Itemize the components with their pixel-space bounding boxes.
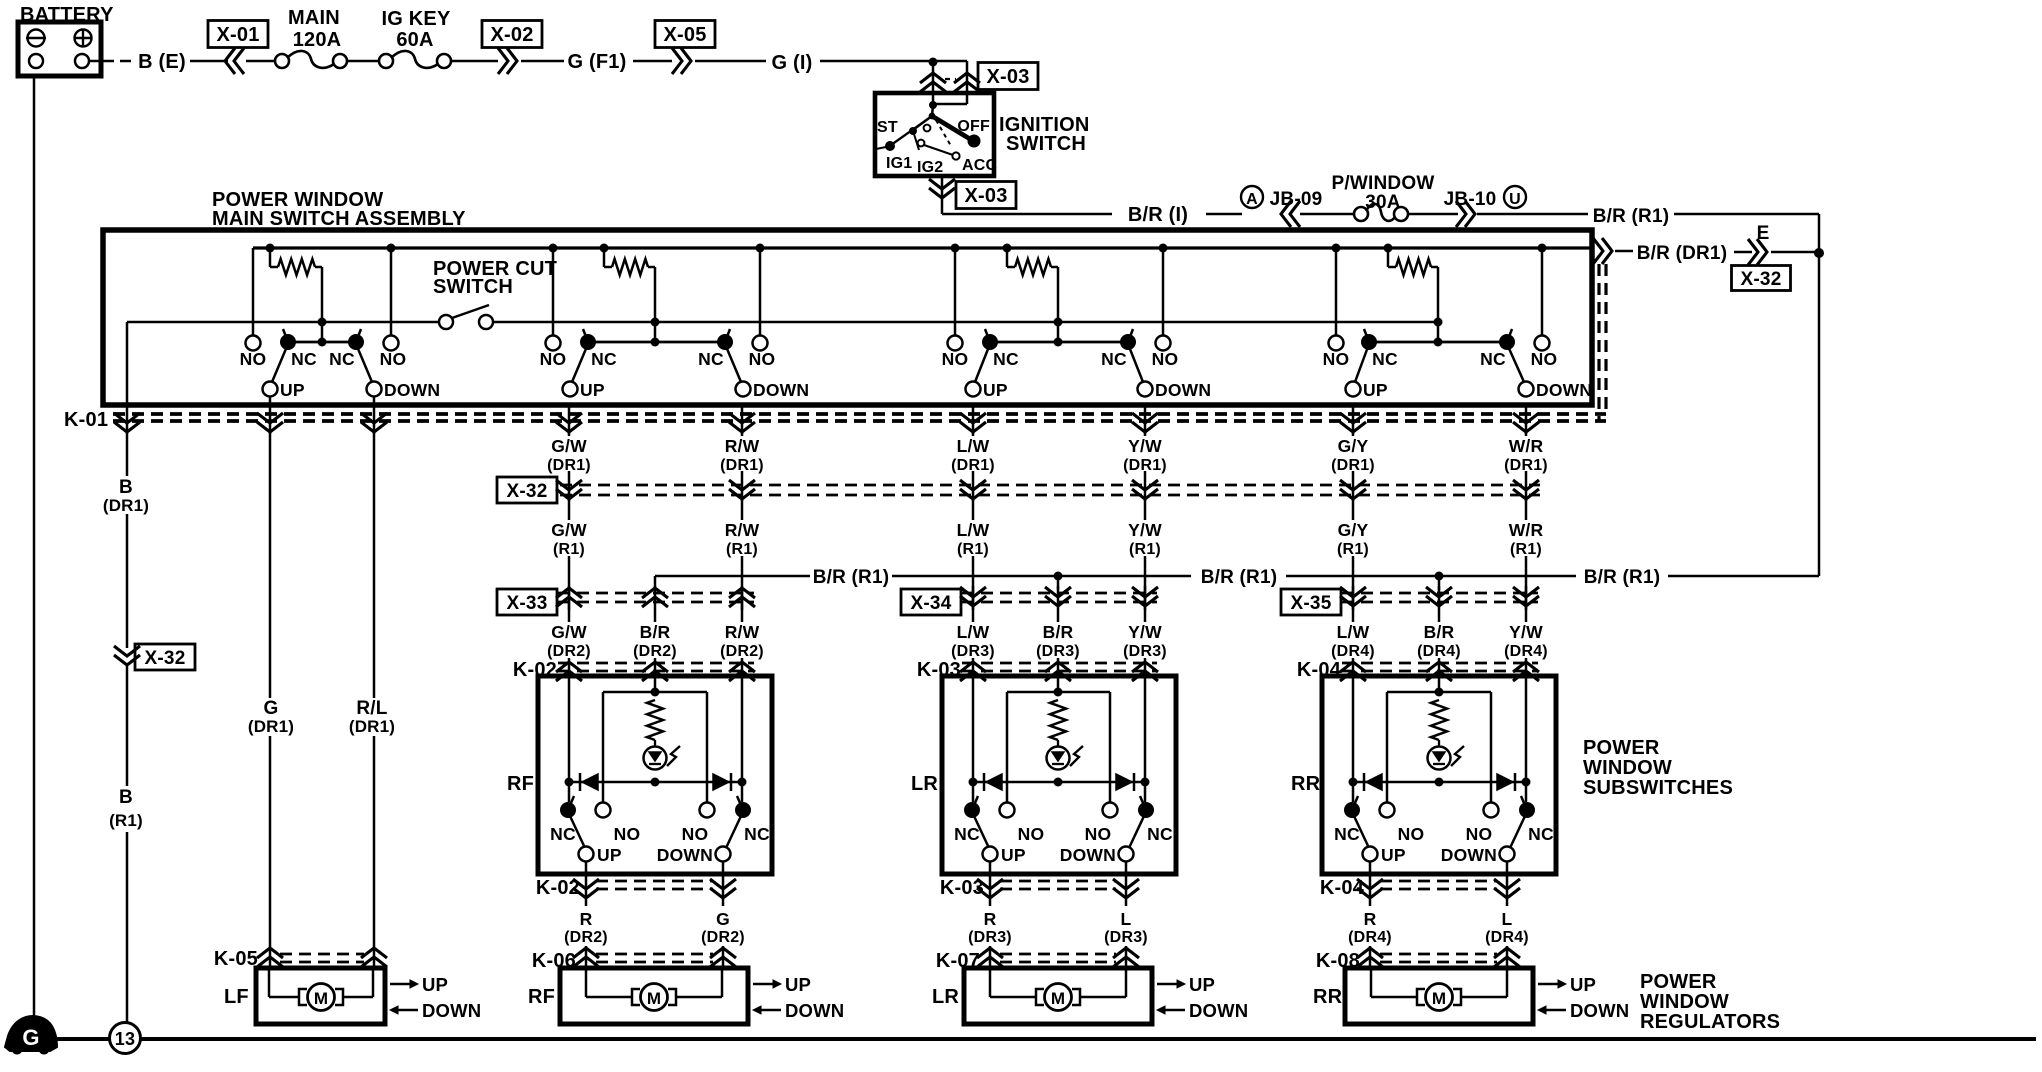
svg-text:(DR1): (DR1) (103, 496, 149, 515)
label K-05 (214, 948, 258, 970)
connector K-04 bottom chevron right (1494, 876, 1520, 906)
svg-text:M: M (1051, 989, 1065, 1008)
svg-text:NO: NO (1085, 824, 1112, 844)
svg-text:X-32: X-32 (145, 648, 186, 669)
label IGNITION SWITCH (999, 114, 1090, 155)
ignition switch internals (876, 101, 981, 160)
wire net B/R (I) (942, 204, 1242, 226)
svg-text:(DR3): (DR3) (951, 643, 995, 660)
svg-text:120A: 120A (293, 29, 342, 51)
power window regulator LF box (256, 968, 385, 1024)
label B (R1) (109, 787, 143, 830)
svg-text:L/W: L/W (957, 520, 990, 540)
svg-text:(DR3): (DR3) (1036, 643, 1080, 660)
label G (DR1) (248, 698, 294, 736)
svg-text:X-05: X-05 (663, 24, 706, 46)
svg-text:G: G (716, 909, 730, 929)
switch group LF-main: contact labels (240, 349, 441, 400)
svg-text:(DR1): (DR1) (547, 457, 591, 474)
svg-text:(R1): (R1) (1337, 541, 1369, 558)
svg-text:(DR1): (DR1) (720, 457, 764, 474)
subswitch RR feed wires (1353, 676, 1526, 802)
label POWER WINDOW SUBSWITCHES (1583, 737, 1733, 799)
wire R/W (R1) at x=742 (741, 499, 744, 610)
switch group RF-main: NO left drop (552, 248, 555, 336)
subswitch RR diode left (1364, 773, 1382, 791)
subswitch RF label (507, 773, 534, 795)
svg-text:Y/W: Y/W (1128, 622, 1162, 642)
svg-text:(DR2): (DR2) (701, 929, 745, 946)
switch group RF-main: NO right drop (759, 248, 762, 336)
label W/R (R1) (1509, 520, 1544, 558)
subswitch LR output wires (990, 861, 1126, 876)
fuse P/WINDOW 30A (1332, 173, 1458, 221)
svg-text:NO: NO (1018, 824, 1045, 844)
wire R/W (DR1) at x=742 (741, 430, 744, 501)
connector K-07 dashed line (1000, 954, 1116, 962)
svg-text:B/R (R1): B/R (R1) (1584, 567, 1661, 588)
switch group LF-main: NO right drop (390, 248, 393, 336)
node B/R (R1) to DR4 (1435, 572, 1444, 581)
wire B/R (DR3) from B/R (R1) (1057, 576, 1060, 590)
svg-text:POWER: POWER (1640, 971, 1717, 993)
svg-text:B/R (DR1): B/R (DR1) (1637, 243, 1727, 264)
label K-03 bottom (940, 877, 984, 899)
wire L/W (DR3) at x=973 (972, 586, 975, 676)
svg-text:K-05: K-05 (214, 948, 258, 970)
connector X-32 row dashed line (560, 485, 1540, 495)
connector K-08 chevron right (1494, 948, 1520, 967)
connector K-08 dashed line (1380, 954, 1497, 962)
svg-text:B/R (R1): B/R (R1) (1593, 206, 1670, 227)
connector K-05 chevron left (257, 948, 283, 967)
subswitch LR DOWN lever (1119, 796, 1147, 862)
connector JB-09 chevron (1281, 201, 1354, 227)
svg-text:NC: NC (1101, 349, 1127, 369)
svg-text:(DR1): (DR1) (1331, 457, 1375, 474)
switch group RF-main: resistor (604, 248, 655, 322)
connector K-02 bottom chevron left (573, 876, 599, 906)
wire B/R (DR2) at x=655 (654, 586, 657, 676)
wire G/W (DR2) at x=569 (568, 586, 571, 676)
wire net G (I) (772, 52, 934, 74)
regulator RF motor M (586, 968, 722, 1011)
svg-text:W/R: W/R (1509, 520, 1544, 540)
svg-text:R/W: R/W (725, 436, 760, 456)
connector X-32 chevron at x=1353 (1340, 480, 1366, 499)
wire net G (F1) (568, 51, 672, 73)
svg-text:(R1): (R1) (553, 541, 585, 558)
svg-text:NC: NC (591, 349, 617, 369)
node B/R (R1) / B/R (DR1) (1814, 248, 1824, 258)
subswitch LR resistor (1050, 700, 1066, 740)
wire G/W (R1) at x=569 (568, 499, 571, 610)
switch group RR-main: resistor (1388, 248, 1438, 322)
bottom ground rail (57, 1037, 2036, 1041)
connector JB-10 chevron (1444, 189, 1588, 227)
svg-text:G (I): G (I) (772, 52, 813, 74)
svg-text:NC: NC (291, 349, 317, 369)
wire battery positive to X-01, net B (E) (89, 51, 228, 73)
subswitch RF feed wires (569, 676, 742, 802)
label R/W (DR1) (720, 436, 764, 474)
label Y/W (DR1) (1123, 436, 1167, 474)
wires into K-08 (1370, 946, 1507, 968)
svg-text:B: B (119, 477, 133, 498)
svg-text:K-01: K-01 (64, 409, 108, 431)
svg-text:NC: NC (1372, 349, 1398, 369)
top bus junction dots (266, 244, 1547, 253)
subswitch RR resistor (1431, 700, 1447, 740)
svg-text:IG KEY: IG KEY (382, 8, 451, 30)
svg-text:B/R: B/R (1424, 622, 1455, 642)
wire B/R (DR4) at x=1439 (1438, 586, 1441, 676)
label B/R (R1) mid-left (813, 567, 890, 588)
svg-text:DOWN: DOWN (1570, 1000, 1629, 1021)
svg-text:B (E): B (E) (138, 51, 186, 73)
power window regulator RF box (560, 968, 748, 1024)
svg-text:(DR2): (DR2) (720, 643, 764, 660)
wire W/R (R1) at x=1526 (1525, 499, 1528, 610)
connector X-33 chevron at x=569 (556, 588, 582, 607)
label POWER WINDOW REGULATORS (1640, 971, 1780, 1033)
label B/R (DR2) (633, 622, 677, 660)
connector K-02 bottom chevron right (710, 876, 736, 906)
subswitch LR diode bus (969, 778, 1150, 787)
svg-text:X-02: X-02 (490, 24, 533, 46)
label L (DR4) (1485, 909, 1529, 946)
regulator RF label (528, 986, 555, 1008)
ignition switch U1 box (875, 93, 994, 176)
connector K-03 bottom chevron left (977, 876, 1003, 906)
battery B+ / B- box (18, 22, 101, 76)
svg-text:UP: UP (597, 845, 622, 865)
svg-text:(R1): (R1) (726, 541, 758, 558)
svg-text:NO: NO (380, 349, 407, 369)
wire R/W (DR2) at x=742 (741, 586, 744, 676)
svg-text:IG2: IG2 (917, 159, 943, 176)
second bus junction dots (318, 318, 1443, 327)
svg-text:SWITCH: SWITCH (1006, 133, 1086, 155)
svg-text:DOWN: DOWN (657, 845, 713, 865)
connector K-03 top chevron at x=1058 (1045, 662, 1071, 681)
battery label (20, 4, 114, 26)
svg-text:NO: NO (942, 349, 969, 369)
connector X-34 dashed line (962, 593, 1157, 602)
connector K-01 chevron at x=569 (556, 405, 582, 434)
power cut switch (439, 305, 493, 329)
svg-text:G/W: G/W (551, 520, 587, 540)
wire W/R (DR1) at x=1526 (1525, 430, 1528, 501)
svg-text:(R1): (R1) (1510, 541, 1542, 558)
svg-text:MAIN SWITCH ASSEMBLY: MAIN SWITCH ASSEMBLY (212, 208, 466, 230)
svg-text:W/R: W/R (1509, 436, 1544, 456)
subswitch RR illumination lamp (1428, 740, 1465, 770)
connector K-03 bottom dashed line (1000, 881, 1116, 889)
svg-text:M: M (1432, 989, 1446, 1008)
connector X-34 chevron at x=1145 (1132, 587, 1158, 606)
wire G/Y (DR1) at x=1353 (1352, 430, 1355, 501)
connector K-01 dashed boundary (113, 264, 1606, 421)
svg-text:(DR4): (DR4) (1485, 929, 1529, 946)
svg-text:(DR1): (DR1) (1123, 457, 1167, 474)
switch group LF-main: contacts (246, 334, 399, 351)
svg-text:(DR1): (DR1) (349, 717, 395, 736)
subswitch RR UP lever (1352, 796, 1378, 862)
label POWER CUT SWITCH (433, 258, 557, 298)
label B/R (DR4) (1417, 622, 1461, 660)
label X-32 row (497, 477, 557, 503)
svg-text:LR: LR (932, 986, 959, 1008)
power window subswitch LR box (942, 676, 1176, 874)
connector K-03 bottom chevron right (1113, 876, 1139, 906)
wire B/R (DR3) at x=1058 (1057, 586, 1060, 676)
subswitch RF contacts (560, 802, 751, 818)
label L/W (DR1) (951, 436, 995, 474)
svg-text:WINDOW: WINDOW (1640, 991, 1729, 1013)
switch group LF-main: resistor to NC link (318, 322, 327, 347)
connector K-02 top dashed line (558, 663, 754, 671)
connector X-03 top (920, 63, 1038, 93)
label R (DR3) (968, 909, 1012, 946)
label K-04 top (1297, 659, 1342, 681)
svg-text:DOWN: DOWN (1536, 380, 1592, 400)
subswitch LR contact labels (954, 824, 1173, 865)
connector K-01 chevron at x=742 (729, 405, 755, 434)
svg-text:NO: NO (1531, 349, 1558, 369)
svg-text:NO: NO (1466, 824, 1493, 844)
label W/R (DR1) (1504, 436, 1548, 474)
label X-35 (1281, 589, 1341, 615)
junction block grommet A (1241, 186, 1322, 210)
svg-text:R: R (1364, 909, 1377, 929)
svg-text:B/R: B/R (640, 622, 671, 642)
label L/W (DR4) (1331, 622, 1375, 660)
svg-text:NO: NO (682, 824, 709, 844)
subswitch RF diode bus (565, 778, 747, 787)
svg-text:NC: NC (954, 824, 980, 844)
node B/R (R1) to DR3 (1054, 572, 1063, 581)
subswitch RF UP lever (568, 796, 594, 862)
label X-33 (497, 589, 557, 615)
svg-text:DOWN: DOWN (1441, 845, 1497, 865)
connector K-01 chevron at x=374 (361, 405, 387, 434)
svg-text:X-03: X-03 (986, 66, 1029, 88)
svg-text:M: M (314, 989, 328, 1008)
svg-text:(DR1): (DR1) (248, 717, 294, 736)
power window regulator LR box (964, 968, 1152, 1024)
svg-text:NO: NO (1323, 349, 1350, 369)
connector K-02 top chevron at x=742 (729, 662, 755, 681)
switch group RF-main: resistor to NC link (651, 322, 660, 347)
svg-text:NC: NC (1334, 824, 1360, 844)
connector X-02 (482, 21, 564, 75)
switch group RF-main: contacts (546, 334, 768, 351)
subswitch LR contacts (964, 802, 1154, 818)
label B (DR1) (103, 477, 149, 515)
connector X-32 chevron at x=1145 (1132, 480, 1158, 499)
connector K-07 chevron right (1113, 948, 1139, 967)
connector X-32 chevron at x=569 (556, 480, 582, 499)
svg-text:NO: NO (1398, 824, 1425, 844)
connector K-06 chevron left (573, 948, 599, 967)
svg-text:L/W: L/W (1337, 622, 1370, 642)
switch group LR-main: UP switch lever (966, 329, 991, 397)
label Y/W (DR4) (1504, 622, 1548, 660)
svg-text:UP: UP (280, 380, 305, 400)
fuse MAIN 120A (275, 7, 379, 68)
regulator RF UP arrow (753, 974, 811, 995)
svg-text:UP: UP (983, 380, 1008, 400)
svg-text:NO: NO (540, 349, 567, 369)
wires into K-06 (586, 946, 723, 968)
svg-text:X-34: X-34 (911, 593, 952, 614)
label B/R (R1) mid-right (1584, 567, 1661, 588)
svg-text:RR: RR (1291, 773, 1321, 795)
subswitch RF output wires (586, 861, 723, 876)
connector K-01 chevron at x=270 (257, 405, 283, 434)
connector K-04 bottom dashed line (1380, 881, 1497, 889)
svg-text:DOWN: DOWN (1155, 380, 1211, 400)
svg-text:Y/W: Y/W (1128, 436, 1162, 456)
svg-text:G/W: G/W (551, 622, 587, 642)
label G/Y (DR1) (1331, 436, 1375, 474)
connector X-33 dashed line (558, 593, 754, 602)
switch group LF-main: UP switch lever (263, 329, 289, 397)
switch group RF-main: NC-NC wire (588, 341, 725, 344)
connector X-33 chevron at x=655 (642, 588, 668, 607)
subswitch RR contacts (1344, 802, 1535, 818)
subswitch LR illumination lamp (1047, 740, 1084, 770)
connector X-34 chevron at x=1058 (1045, 587, 1071, 606)
connector K-05 dashed line (280, 954, 364, 962)
ground symbol G (5, 1016, 57, 1054)
junction block grommet U (1504, 186, 1526, 208)
regulator LR UP arrow (1157, 974, 1215, 995)
svg-text:G/Y: G/Y (1338, 520, 1369, 540)
svg-text:(DR3): (DR3) (968, 929, 1012, 946)
svg-text:B/R (R1): B/R (R1) (813, 567, 890, 588)
label K-01 (64, 409, 108, 431)
svg-text:RF: RF (507, 773, 534, 795)
connector X-35 chevron at x=1526 (1513, 587, 1539, 606)
switch group LF-main: NC-NC wire (288, 341, 356, 344)
label B/R (R1) mid (1201, 567, 1278, 588)
connector X-35 chevron at x=1439 (1426, 587, 1452, 606)
connector K-04 top chevron at x=1526 (1513, 662, 1539, 681)
power window subswitch RR box (1322, 676, 1556, 874)
label L (DR3) (1104, 909, 1148, 946)
svg-text:NC: NC (1480, 349, 1506, 369)
wire L/W (DR4) at x=1353 (1352, 586, 1355, 676)
wire B (R1) vertical (126, 666, 129, 1023)
regulator RR label (1313, 986, 1343, 1008)
label K-06 (532, 950, 576, 972)
wire battery negative to ground (33, 76, 36, 1018)
svg-text:G: G (264, 698, 279, 719)
label G/W (R1) (551, 520, 587, 558)
connector K-03 top chevron at x=1145 (1132, 662, 1158, 681)
svg-text:(DR2): (DR2) (547, 643, 591, 660)
svg-text:B: B (119, 787, 133, 808)
subswitch RR diode right (1497, 773, 1515, 791)
switch group LF-main: resistor (270, 248, 322, 322)
svg-text:DOWN: DOWN (422, 1000, 481, 1021)
svg-text:DOWN: DOWN (1189, 1000, 1248, 1021)
connector K-01 chevron at x=973 (960, 405, 986, 434)
subswitch RR diode bus (1349, 778, 1531, 787)
switch group LR-main: contacts (948, 334, 1171, 351)
svg-text:(R1): (R1) (109, 811, 143, 830)
svg-text:NO: NO (240, 349, 267, 369)
connector K-06 chevron right (710, 948, 736, 967)
wire L/W (DR1) at x=973 (972, 430, 975, 501)
label K-02 bottom (536, 877, 580, 899)
svg-text:RF: RF (528, 986, 555, 1008)
switch group RF-main: DOWN switch lever (725, 329, 751, 397)
subswitch LR diode right (1116, 773, 1134, 791)
svg-text:UP: UP (1570, 974, 1596, 995)
label B/R (DR3) (1036, 622, 1080, 660)
regulator LR label (932, 986, 959, 1008)
svg-text:LR: LR (911, 773, 938, 795)
svg-text:UP: UP (580, 380, 605, 400)
switch group LR-main: DOWN switch lever (1128, 329, 1153, 397)
svg-text:L: L (1502, 909, 1513, 929)
connector K-01 chevron at x=1353 (1340, 405, 1366, 434)
svg-text:L/W: L/W (957, 622, 990, 642)
switch group RF-main: contact labels (540, 349, 810, 400)
switch group RF-main: UP switch lever (563, 329, 589, 397)
svg-text:G/W: G/W (551, 436, 587, 456)
wire net B/R (R1) top (1593, 206, 1819, 227)
subswitch RF diode right (713, 773, 731, 791)
switch group LR-main: NC-NC wire (990, 341, 1128, 344)
switch group RR-main: UP switch lever (1346, 329, 1370, 397)
label R (DR4) (1348, 909, 1392, 946)
svg-text:L/W: L/W (957, 436, 990, 456)
svg-text:X-01: X-01 (216, 24, 259, 46)
connector E / X-32 chevron (1732, 223, 1820, 291)
svg-text:R: R (984, 909, 997, 929)
svg-text:NO: NO (749, 349, 776, 369)
switch group RR-main: NO right drop (1541, 248, 1544, 336)
subswitch RR DOWN lever (1500, 796, 1528, 862)
subswitch RF contact labels (550, 824, 770, 865)
regulator LF motor M (269, 968, 373, 1011)
wire left ground branch in main box (126, 322, 129, 405)
svg-text:NC: NC (1528, 824, 1554, 844)
connector K-04 top dashed line (1342, 663, 1538, 671)
node at ignition feed (929, 58, 968, 105)
power window subswitch RF box (538, 676, 772, 874)
label X-34 (901, 589, 961, 615)
svg-text:NC: NC (329, 349, 355, 369)
label K-07 (936, 950, 980, 972)
svg-text:NO: NO (614, 824, 641, 844)
main switch top bus wire (253, 246, 1592, 249)
svg-text:UP: UP (1189, 974, 1215, 995)
switch group LR-main: NO left drop (954, 248, 957, 336)
label Y/W (R1) (1128, 520, 1162, 558)
label B/R (DR1) (1637, 243, 1752, 264)
subswitch LR diode left (984, 773, 1002, 791)
label R/L (DR1) (349, 698, 395, 736)
subswitch RR output wires (1370, 861, 1507, 876)
svg-text:ACC: ACC (962, 157, 998, 174)
switch group LR-main: contact labels (942, 349, 1212, 400)
subswitch RR inner bridge rect (1387, 688, 1491, 803)
